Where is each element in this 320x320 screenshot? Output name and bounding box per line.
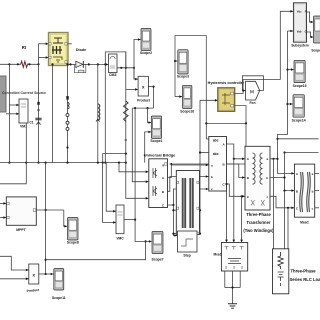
svg-text:Scope2: Scope2 bbox=[140, 51, 152, 55]
wire filter out b bbox=[199, 233, 202, 235]
wire Vabc stub bbox=[206, 138, 208, 140]
svg-text:Mea1: Mea1 bbox=[214, 253, 222, 257]
wire diode snubber loop bbox=[75, 64, 86, 72]
wire neutral join bbox=[225, 287, 240, 289]
wire rail x45 bbox=[45, 163, 47, 276]
wire bridge C to meas c bbox=[168, 188, 209, 206]
svg-text:g: g bbox=[162, 163, 164, 167]
wire VM2 output bbox=[124, 219, 135, 221]
wire tap to cap bank 1 bbox=[225, 183, 228, 242]
wire gate signal bbox=[170, 163, 247, 166]
block universal bridge inverter bbox=[149, 159, 168, 208]
wire rail C1 bbox=[37, 64, 39, 163]
wire MPPT output bbox=[36, 209, 64, 211]
wire to Scope3 bbox=[174, 60, 177, 63]
wire filter port b bbox=[172, 233, 176, 235]
block hysteresis controller (yellow) bbox=[218, 88, 235, 112]
wire Subsystem C to scope bbox=[307, 32, 314, 38]
wire Fcn feedback loop bbox=[242, 76, 263, 92]
wire tap A to edge bbox=[278, 138, 319, 140]
svg-text:Scope9: Scope9 bbox=[311, 48, 320, 52]
svg-text:CM3: CM3 bbox=[109, 73, 116, 77]
wire source to VM1 port 2 bbox=[6, 113, 19, 116]
wire bus to bridge port 1 bbox=[119, 163, 148, 174]
block PV array (cropped, selected) bbox=[0, 76, 6, 112]
wire tap B vertical bbox=[284, 153, 286, 178]
svg-text:Scope11: Scope11 bbox=[52, 296, 66, 300]
wire bus to Scope1 port 2 bbox=[145, 131, 151, 163]
svg-text:Rt: Rt bbox=[22, 45, 27, 50]
scope Scope11 bbox=[52, 269, 66, 300]
wire transformer b to measR bbox=[270, 176, 294, 192]
wire rail x9 bbox=[8, 64, 10, 163]
wire bridge A to meas a bbox=[168, 164, 209, 178]
wire transformer c to measR bbox=[270, 196, 294, 209]
svg-text:Three-Phase: Three-Phase bbox=[291, 269, 317, 274]
wire load feed 1 bbox=[273, 159, 275, 249]
scope ScopeS (right of Subsystem) bbox=[311, 16, 320, 52]
block current measurement CM3 bbox=[109, 54, 118, 77]
wire rail x67 bbox=[66, 63, 68, 162]
wire to Product port 1 bbox=[134, 68, 138, 81]
wire rail to Step bbox=[173, 205, 177, 237]
wire rail inductor bbox=[97, 64, 99, 162]
svg-text:Product: Product bbox=[137, 99, 151, 103]
resistor Rt bbox=[20, 45, 29, 67]
wire measR b stub bbox=[315, 190, 319, 192]
wire CM3 output bbox=[117, 67, 135, 69]
scope Scope14 bbox=[292, 95, 306, 123]
block three-phase transformer bbox=[245, 146, 270, 210]
svg-text:Vab: Vab bbox=[297, 29, 302, 33]
wire long vertical to Scope7 bbox=[134, 108, 152, 243]
wire Subsystem P to scope bbox=[307, 12, 314, 23]
svg-text:Scope3: Scope3 bbox=[177, 74, 189, 78]
wire measR a stub bbox=[315, 172, 319, 174]
block three-phase V-I measurement bbox=[209, 137, 227, 192]
wire filter out a bbox=[199, 209, 202, 211]
wire bus to VM2 port 1 bbox=[106, 163, 116, 213]
svg-text:MPPT: MPPT bbox=[16, 228, 26, 232]
wire cap bank down 2 bbox=[232, 271, 234, 288]
svg-text:Subsystem: Subsystem bbox=[291, 44, 309, 48]
svg-text:abc: abc bbox=[213, 152, 219, 156]
wire to Subsystem port 1 bbox=[280, 10, 293, 80]
wire measR c stub bbox=[315, 207, 319, 209]
wire meas C to transformer bbox=[227, 184, 245, 198]
svg-text:Scope16: Scope16 bbox=[180, 110, 194, 114]
wire loop down to gate line bbox=[245, 123, 247, 164]
wire into hysteresis bbox=[200, 99, 218, 102]
block three-phase series RLC load bbox=[273, 249, 289, 294]
scope Scope8 bbox=[67, 218, 79, 245]
block product Product bbox=[137, 76, 151, 102]
wire transformer a to measR bbox=[270, 158, 294, 175]
winding symbol on rail x67 bbox=[66, 96, 69, 130]
wire load feed 3 bbox=[287, 208, 289, 249]
wire to Scope2 bbox=[134, 38, 141, 79]
svg-text:Universal Bridge: Universal Bridge bbox=[144, 152, 177, 157]
wire Rt to boost input bbox=[28, 44, 39, 66]
wire Product output bbox=[148, 86, 153, 88]
block measurement MeaC bbox=[294, 164, 314, 224]
block voltage measurement VM2 bbox=[116, 205, 124, 241]
scope Scope7 bbox=[151, 232, 163, 262]
block capacitor bank Mea1 bbox=[214, 243, 248, 272]
block MPPT bbox=[6, 197, 36, 232]
svg-text:C: C bbox=[305, 29, 307, 33]
svg-text:|u|: |u| bbox=[250, 89, 254, 93]
block Step bbox=[178, 231, 198, 257]
wire load feed 2 bbox=[284, 191, 286, 249]
wire Vabc up bbox=[205, 123, 207, 139]
wire dc rail top loop bbox=[105, 52, 126, 68]
block voltage measurement VM1 bbox=[19, 99, 28, 129]
wire into Product2 port 1 bbox=[0, 256, 29, 271]
svg-text:Scope15: Scope15 bbox=[293, 84, 307, 88]
wire bridge B to meas b bbox=[168, 175, 209, 191]
svg-text:C1: C1 bbox=[29, 121, 33, 125]
svg-text:Controlled Current Source: Controlled Current Source bbox=[2, 91, 46, 95]
wire Product2 to Scope11 bbox=[39, 273, 54, 276]
wire loop horizontal bbox=[132, 107, 153, 109]
wire boost top stub bbox=[68, 43, 72, 45]
wire rail x125 to bridge port 3 bbox=[125, 52, 149, 200]
scope Scope16 bbox=[180, 85, 194, 113]
wire meas A to transformer bbox=[227, 144, 245, 160]
wire to ground bbox=[231, 286, 233, 303]
wire tap B to edge bbox=[283, 151, 318, 153]
block Subsystem bbox=[291, 3, 309, 48]
wire Iabc stub bbox=[199, 151, 209, 153]
wire boost to diode bbox=[68, 63, 75, 65]
svg-text:(Two Windings): (Two Windings) bbox=[243, 228, 274, 233]
wire to Scope15 bbox=[288, 68, 294, 71]
svg-text:Fcn: Fcn bbox=[249, 101, 255, 105]
svg-text:Vdc: Vdc bbox=[297, 10, 302, 14]
wire into Scope1 port 1 bbox=[148, 108, 152, 124]
svg-text:Three-Phase: Three-Phase bbox=[246, 212, 271, 217]
wire into MPPT port 2 bbox=[0, 216, 6, 219]
svg-text:Transformer: Transformer bbox=[247, 220, 271, 225]
wire long to Scope7 bbox=[46, 240, 147, 259]
wire measurement rail x200 bbox=[199, 100, 201, 234]
svg-text:Hysteresis controller: Hysteresis controller bbox=[208, 81, 245, 85]
svg-text:Scope7: Scope7 bbox=[151, 257, 163, 261]
wire rail x105 bbox=[104, 64, 106, 163]
wire hysteresis out 1 bbox=[235, 80, 281, 94]
wire rail x52 bbox=[51, 63, 53, 162]
svg-text:Diode: Diode bbox=[76, 48, 86, 52]
svg-text:Scope8: Scope8 bbox=[67, 240, 79, 244]
ground bbox=[228, 304, 237, 308]
wire to Scope14 bbox=[288, 103, 293, 106]
wire bus to VM2 port 2 bbox=[103, 163, 116, 224]
svg-text:Series RLC Load: Series RLC Load bbox=[290, 277, 320, 282]
wire filter port a bbox=[172, 209, 176, 211]
wire meas B to transformer bbox=[227, 164, 245, 179]
wire to Subsystem port 2 bbox=[288, 30, 294, 33]
wire diode to CM3 bbox=[84, 63, 109, 66]
block filter (series RLC branches) bbox=[176, 171, 199, 240]
svg-text:b: b bbox=[211, 175, 213, 179]
wire VM1 out to left edge bbox=[0, 123, 26, 184]
wire Product out drop bbox=[152, 86, 154, 109]
wire to Scope8 bbox=[64, 210, 67, 228]
scope Scope1 bbox=[150, 116, 162, 143]
wire into VM1 port 1 bbox=[9, 104, 19, 107]
svg-text:VMC: VMC bbox=[116, 237, 124, 241]
wire into MPPT port 1 bbox=[0, 202, 6, 205]
wire cap bank down 3 bbox=[239, 271, 241, 288]
scope Scope15 bbox=[293, 60, 307, 88]
scope Scope3 bbox=[177, 50, 189, 79]
wire cap bank down 1 bbox=[224, 271, 226, 288]
wire into Product2 port 2 bbox=[0, 278, 29, 281]
svg-text:b: b bbox=[312, 189, 314, 193]
diode Diode bbox=[76, 48, 86, 68]
svg-text:b: b bbox=[266, 176, 268, 180]
wire dc+ left segment bbox=[0, 63, 20, 65]
wire tap to cap bank 3 bbox=[240, 196, 243, 242]
scope Scope2 bbox=[140, 29, 152, 55]
block product Product2 bbox=[26, 264, 40, 293]
block Fcn bbox=[246, 81, 260, 105]
block boost converter (yellow IGBT block) bbox=[49, 33, 69, 66]
svg-text:MeaC: MeaC bbox=[300, 220, 309, 224]
wire hysteresis loop to scopes bbox=[175, 36, 247, 125]
wire bus upper jog bbox=[103, 154, 126, 163]
wire tap to cap bank 2 bbox=[233, 159, 236, 242]
wire to Scope16 bbox=[175, 95, 182, 98]
svg-text:Scope14: Scope14 bbox=[292, 118, 306, 122]
wire loop to bridge port 2 bbox=[132, 108, 148, 183]
svg-text:P: P bbox=[305, 10, 307, 14]
svg-text:Step: Step bbox=[183, 253, 190, 257]
wire main bus bbox=[0, 162, 126, 164]
svg-text:abc: abc bbox=[213, 139, 219, 143]
svg-text:Scope1: Scope1 bbox=[150, 139, 162, 143]
wire into Product port 2 bbox=[126, 88, 138, 91]
wire into boost port 1 bbox=[39, 43, 49, 46]
wire into boost port 2 bbox=[39, 56, 49, 59]
wire Vabc rail to subsystem bbox=[276, 31, 288, 159]
